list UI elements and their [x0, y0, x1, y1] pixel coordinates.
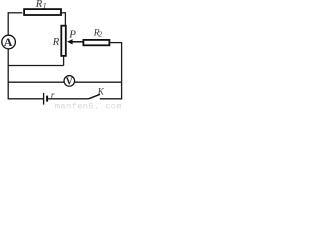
svg-text:manfen5. com: manfen5. com: [55, 102, 122, 110]
wire top-left horizontal: [8, 12, 22, 14]
switch K blade: [89, 94, 100, 99]
wire voltmeter line right: [75, 81, 122, 83]
wire down to rheostat top: [64, 12, 66, 25]
wiper arrow of rheostat: [72, 41, 83, 43]
svg-text:R: R: [52, 37, 60, 48]
svg-text:2: 2: [99, 31, 103, 39]
svg-text:1: 1: [43, 2, 47, 11]
left border wire upper: [7, 12, 9, 35]
left border wire lower: [7, 49, 9, 100]
wire R1 to corner: [60, 12, 66, 14]
wire battery to switch: [48, 98, 89, 100]
resistor R1: [24, 9, 61, 15]
battery short plate: [46, 96, 48, 102]
svg-text:K: K: [97, 86, 105, 96]
rheostat R body: [61, 26, 66, 56]
wire bottom left: [8, 98, 43, 100]
right border wire: [121, 42, 123, 99]
svg-text:P: P: [68, 29, 76, 41]
wire R2 to right border: [110, 42, 122, 44]
svg-text:A: A: [4, 35, 13, 49]
rheostat bottom stub: [63, 56, 65, 65]
svg-text:R: R: [35, 0, 43, 10]
wire rheostat bottom to left border: [8, 65, 63, 67]
svg-text:V: V: [66, 76, 74, 87]
voltmeter V: [64, 76, 75, 87]
wire switch to right corner: [100, 98, 122, 100]
resistor R2: [83, 40, 109, 45]
battery long plate: [43, 93, 45, 105]
wire voltmeter line left: [8, 81, 64, 83]
ammeter A: [2, 35, 16, 49]
